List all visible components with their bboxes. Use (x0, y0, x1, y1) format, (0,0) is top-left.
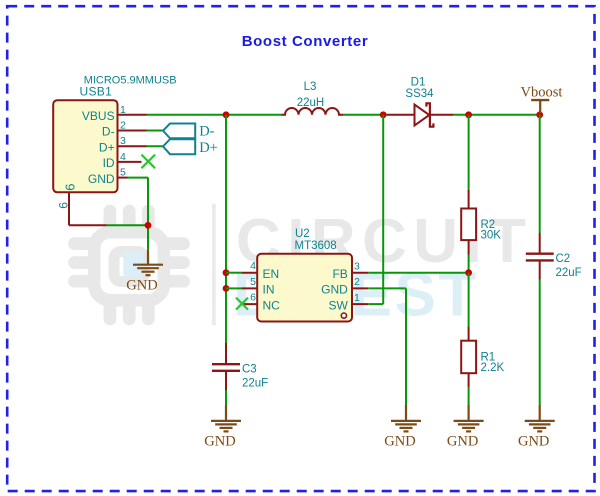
svg-text:U2: U2 (295, 228, 310, 240)
inductor L3 (282, 108, 344, 115)
svg-text:22uF: 22uF (556, 267, 582, 279)
svg-text:ID: ID (103, 156, 115, 170)
connector USB1 body (53, 100, 146, 225)
svg-text:22uH: 22uH (297, 97, 325, 109)
IC U2 pin numbers (250, 260, 360, 304)
junction FB divider node (465, 269, 472, 276)
svg-text:C2: C2 (556, 253, 571, 265)
svg-text:FB: FB (332, 267, 347, 281)
net port D+ (163, 139, 218, 156)
wire C2 bottom to ground (539, 262, 541, 406)
svg-text:MICRO5.9MMUSB: MICRO5.9MMUSB (84, 74, 177, 86)
svg-text:VBUS: VBUS (82, 109, 115, 123)
svg-text:D+: D+ (99, 140, 115, 154)
svg-text:6: 6 (62, 183, 77, 190)
wire FB to divider (368, 272, 468, 274)
svg-text:22uF: 22uF (242, 378, 268, 390)
no-connect X on USB1 ID pin (141, 155, 155, 169)
no-connect X on U2 NC pin (236, 298, 248, 310)
svg-text:2: 2 (120, 120, 126, 132)
svg-text:5: 5 (250, 276, 256, 288)
wire FB node down to R1 (468, 273, 470, 341)
svg-text:D1: D1 (411, 77, 426, 89)
junction USB ground node (145, 222, 152, 229)
wire VBUS vertical down to EN/IN/C3 (225, 115, 227, 343)
svg-text:NC: NC (263, 298, 281, 312)
svg-text:MT3608: MT3608 (295, 240, 337, 252)
svg-text:3: 3 (354, 261, 360, 273)
wire R1 bottom to ground (468, 373, 470, 405)
svg-text:D-: D- (102, 125, 115, 139)
net port D- (163, 124, 215, 140)
wire D1 cathode to output (430, 114, 540, 116)
junction EN node (223, 269, 230, 276)
junction IN node (223, 285, 230, 292)
svg-text:L3: L3 (304, 81, 317, 93)
connector USB1 pin numbers (56, 104, 126, 209)
svg-text:SW: SW (328, 298, 348, 312)
svg-text:GND: GND (518, 434, 549, 450)
ground GND (C3) (211, 405, 241, 431)
svg-text:D+: D+ (199, 140, 218, 156)
junction SW node (380, 111, 387, 118)
svg-text:SS34: SS34 (405, 88, 434, 100)
svg-text:6: 6 (56, 202, 70, 209)
svg-text:GND: GND (321, 283, 348, 297)
svg-text:2: 2 (354, 276, 360, 288)
wire VBUS stub to net (147, 114, 282, 116)
svg-text:GND: GND (204, 434, 235, 450)
svg-text:IN: IN (263, 283, 275, 297)
svg-text:GND: GND (384, 434, 415, 450)
wire EN (226, 272, 257, 274)
junction R2 top node (465, 111, 472, 118)
svg-text:1: 1 (354, 292, 360, 304)
ground GND (USB) (133, 249, 163, 275)
junction VBUS node (223, 111, 230, 118)
wire SW to inductor node (368, 115, 383, 304)
IC U2 body (241, 254, 368, 322)
resistor R1 (461, 341, 476, 374)
wire pin 6 to GND junction (69, 224, 148, 226)
svg-text:C3: C3 (242, 364, 257, 376)
capacitor C2 (526, 254, 554, 261)
ground GND (C2) (525, 405, 555, 431)
svg-text:USB1: USB1 (80, 85, 113, 99)
svg-text:30K: 30K (481, 230, 502, 242)
svg-text:GND: GND (88, 172, 115, 186)
svg-text:Vboost: Vboost (521, 85, 563, 101)
svg-text:3: 3 (120, 135, 126, 147)
wire L3 to SW node (343, 114, 387, 116)
wire IN (226, 287, 257, 289)
resistor R2 (461, 209, 476, 241)
svg-text:GND: GND (447, 434, 478, 450)
wire IN net down to C3 (225, 343, 227, 363)
wire R2 bottom to FB junction (468, 240, 470, 273)
svg-text:4: 4 (250, 260, 256, 272)
junction Vboost node (536, 111, 543, 118)
svg-text:5: 5 (120, 167, 126, 179)
diode D1 (415, 103, 434, 126)
svg-text:6: 6 (250, 292, 256, 304)
wire D+ from pin 3 (147, 145, 164, 147)
svg-text:D-: D- (199, 124, 214, 140)
wire Vboost node down to C2 (539, 115, 541, 253)
svg-text:2.2K: 2.2K (481, 362, 505, 374)
ground GND (R1) (454, 405, 484, 431)
wire C3 bottom to ground (225, 372, 227, 405)
wire U2 GND down (368, 288, 406, 405)
svg-text:1: 1 (120, 104, 126, 116)
svg-text:Boost Converter: Boost Converter (242, 33, 369, 50)
power flag Vboost (521, 85, 563, 114)
svg-text:EN: EN (263, 267, 280, 281)
wire D- from pin 2 (147, 130, 164, 132)
svg-text:GND: GND (126, 278, 157, 294)
wire output node down to R2 (468, 115, 470, 209)
wire SW node to D1 anode (387, 114, 415, 116)
wire GND pin 5 (128, 178, 149, 250)
svg-text:4: 4 (120, 151, 126, 163)
ground GND (U2) (391, 405, 421, 431)
capacitor C3 (212, 364, 240, 371)
